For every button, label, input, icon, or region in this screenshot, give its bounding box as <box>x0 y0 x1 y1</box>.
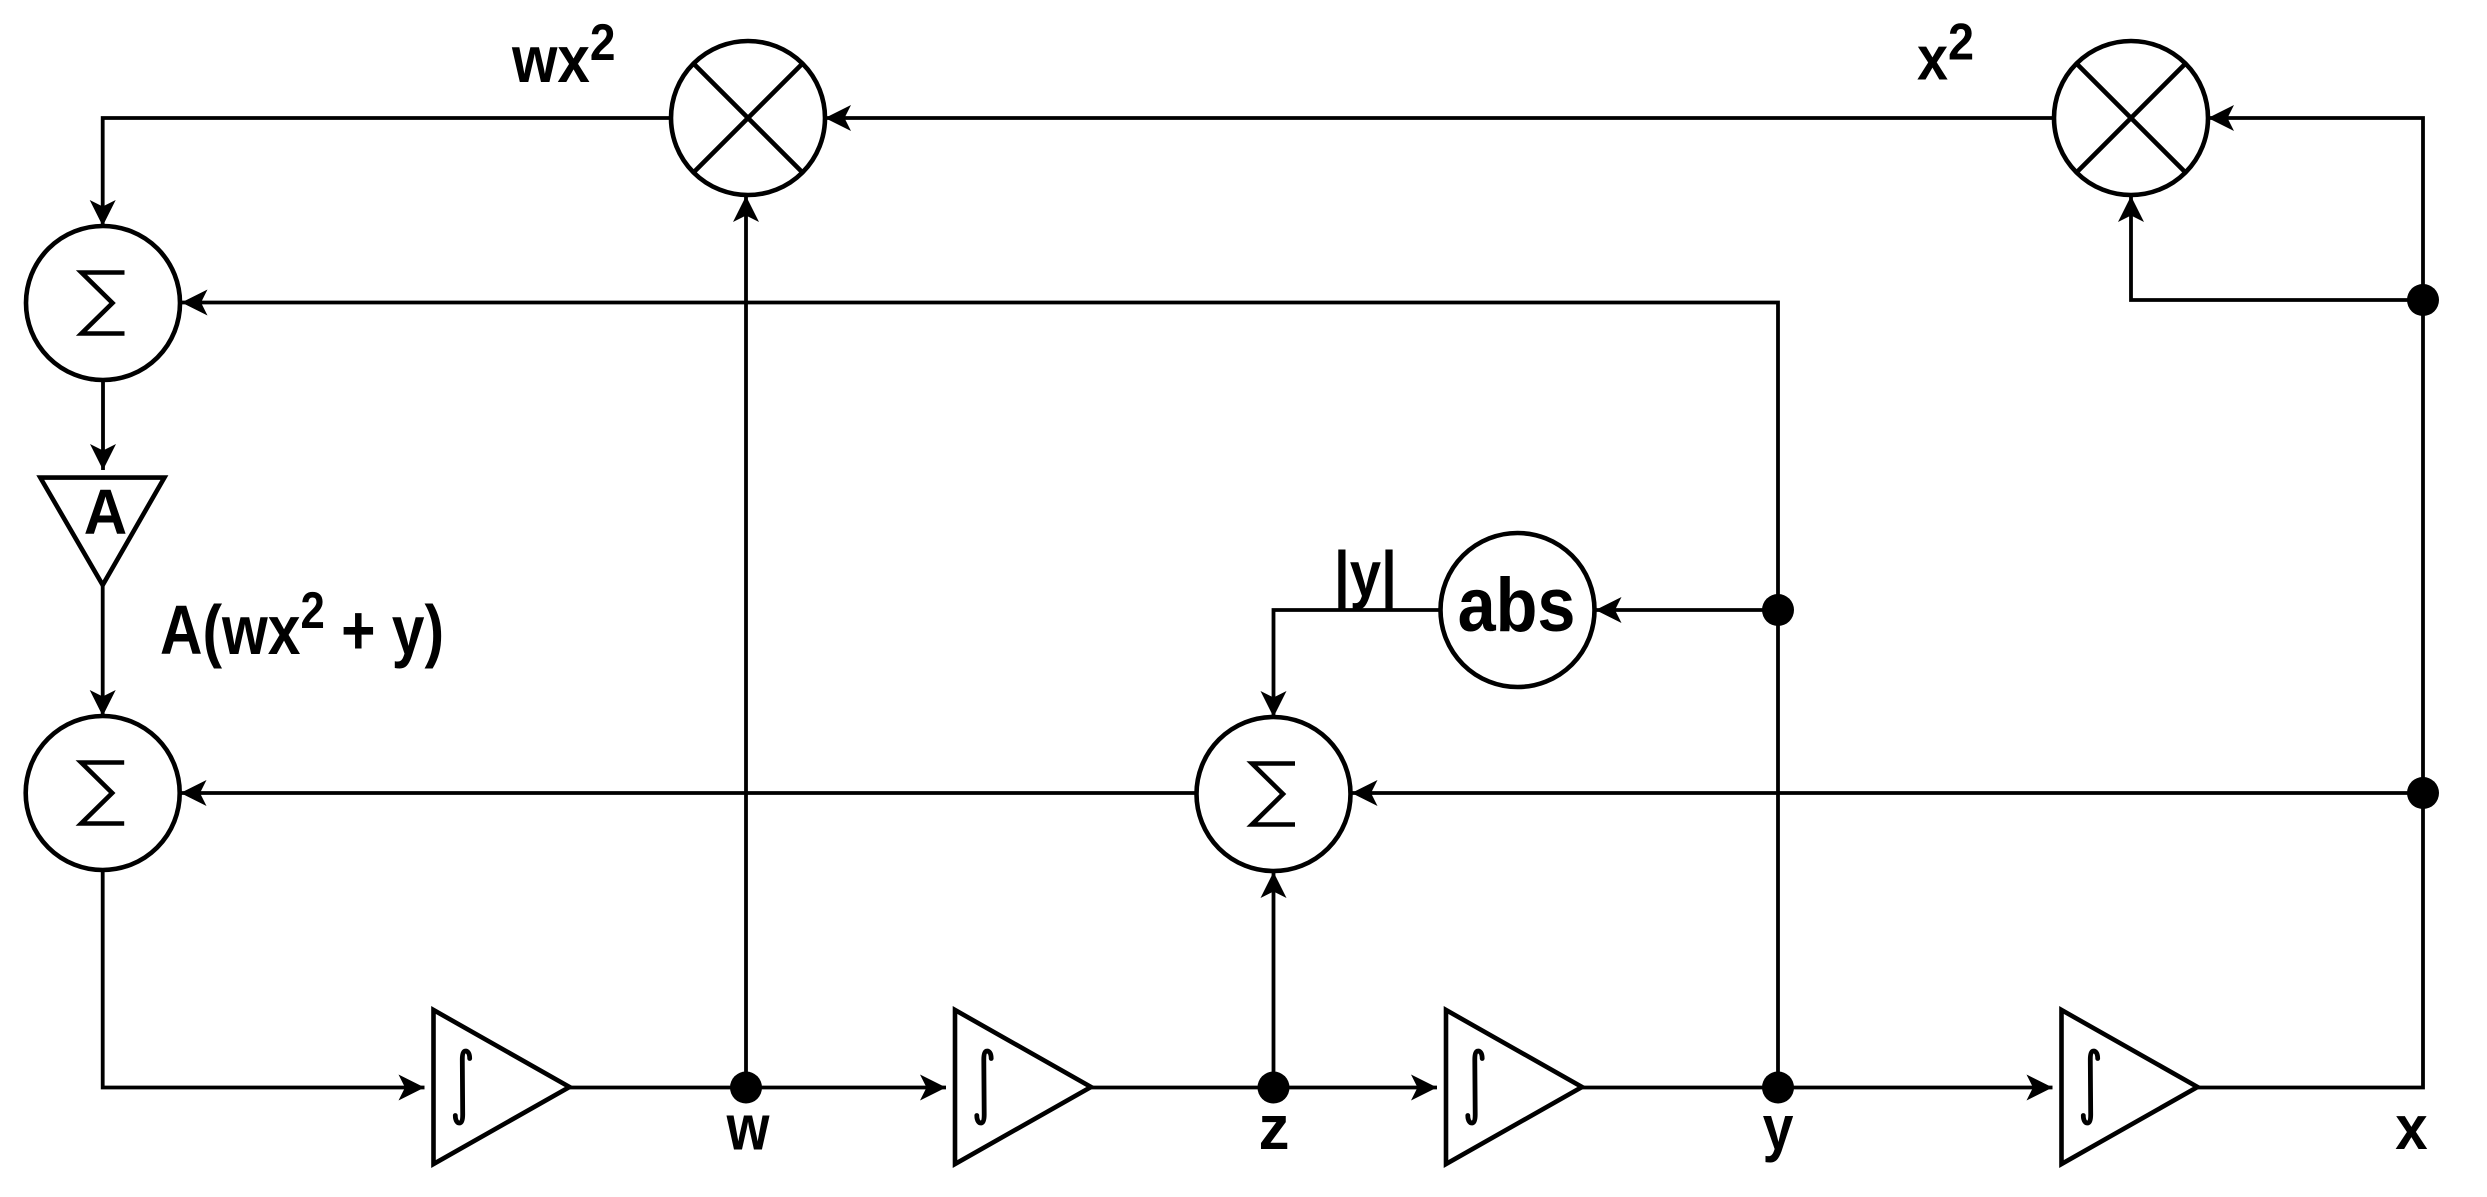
wire z node up into sum S3 <box>1272 872 1276 1088</box>
integrator I1 <box>434 1010 570 1164</box>
summer S3 <box>1197 717 1351 871</box>
svg-text:|y|: |y| <box>1334 538 1397 612</box>
summer S2 <box>26 716 180 870</box>
node y <box>1762 1072 1794 1164</box>
wire x tap into right multiplier bottom <box>2131 196 2423 300</box>
label A(wx2+y) <box>160 583 444 670</box>
wire from x loop into right multiplier <box>2198 118 2424 1088</box>
wire S2 output to integrator I1 <box>103 870 425 1088</box>
wire I2 to I3 <box>1091 1086 1437 1090</box>
gain A <box>40 477 164 585</box>
svg-text:abs: abs <box>1458 564 1576 648</box>
wire y node up and left into sum S1 <box>182 303 1779 1088</box>
wire S3 output into sum S2 <box>181 791 1197 795</box>
node w <box>726 1072 770 1164</box>
wire I1 to I2 <box>570 1086 947 1090</box>
svg-text:x: x <box>2395 1093 2428 1162</box>
node x corner label <box>2395 1093 2428 1162</box>
wire S1 to gain A <box>101 380 105 470</box>
wire w node up into left multiplier <box>744 196 748 1088</box>
wire x2 from right multiplier to left multiplier <box>825 116 2054 120</box>
svg-text:w: w <box>726 1092 770 1164</box>
junction dot y tap <box>1762 594 1794 626</box>
svg-text:A: A <box>84 477 127 548</box>
node z <box>1258 1072 1290 1164</box>
wire wx2 from left multiplier into sum S1 <box>103 118 671 226</box>
label wx2 <box>511 14 615 96</box>
label |y| <box>1334 538 1397 612</box>
multiplier M1 (wx2) <box>671 41 825 195</box>
svg-text:z: z <box>1259 1094 1290 1163</box>
wire gain A to sum S2 <box>101 585 105 716</box>
integrator I3 <box>1446 1010 1582 1164</box>
junction dot x tap top <box>2407 284 2439 316</box>
abs block <box>1441 533 1595 687</box>
wire x into sum S3 <box>1352 791 2424 795</box>
multiplier M2 (x2) <box>2054 41 2208 195</box>
label x2 <box>1917 13 1974 93</box>
integrator I4 <box>2062 1010 2198 1164</box>
wire I3 to I4 <box>1582 1086 2053 1090</box>
summer S1 <box>26 226 180 380</box>
wire y tap into abs <box>1596 608 1779 612</box>
junction dot x tap middle <box>2407 777 2439 809</box>
wire abs output into sum S3 <box>1274 610 1441 717</box>
svg-text:y: y <box>1763 1092 1794 1163</box>
integrator I2 <box>955 1010 1091 1164</box>
